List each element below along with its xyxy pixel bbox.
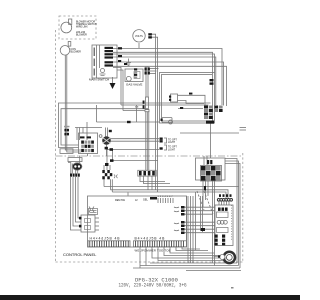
svg-text:GAS VALVE: GAS VALVE xyxy=(126,83,142,87)
svg-text:LIGHT: LIGHT xyxy=(168,149,176,152)
svg-text:H4×4dJ5B 4B: H4×4dJ5B 4B xyxy=(90,237,121,241)
svg-text:CONTROL PANEL: CONTROL PANEL xyxy=(63,252,97,257)
svg-text:MAIN SWITCH: MAIN SWITCH xyxy=(89,78,109,82)
svg-text:120V, 220-240V 50/60Hz, 3+G: 120V, 220-240V 50/60Hz, 3+G xyxy=(119,282,187,289)
svg-text:BLOWER: BLOWER xyxy=(71,50,82,53)
svg-text:B4×4dJ5B 4B: B4×4dJ5B 4B xyxy=(135,237,166,241)
svg-text:SEL: SEL xyxy=(143,198,148,202)
svg-text:J2: J2 xyxy=(135,199,138,202)
svg-text:REM SW: REM SW xyxy=(115,199,126,202)
svg-text:LIGHT: LIGHT xyxy=(168,141,176,144)
svg-text:WE JPOMWER TOE-TOE: WE JPOMWER TOE-TOE xyxy=(135,249,171,253)
svg-text:WIRE LINK: WIRE LINK xyxy=(76,26,88,28)
svg-text:1234567: 1234567 xyxy=(158,196,174,198)
svg-text:VOLTS: VOLTS xyxy=(135,35,143,38)
svg-text:BLOWER: BLOWER xyxy=(76,34,87,37)
